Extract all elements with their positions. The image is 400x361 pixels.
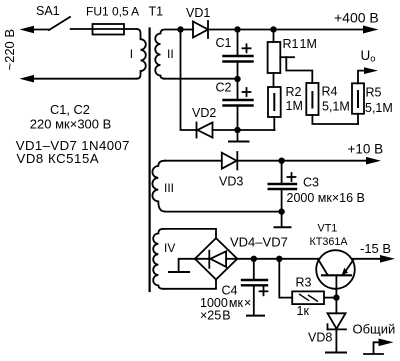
ground: chassis at bridge left bbox=[169, 259, 195, 272]
capacitor C1 bbox=[224, 30, 253, 80]
diode VD1 bbox=[193, 21, 238, 38]
resistor R1 bbox=[268, 30, 281, 88]
arrow: -15 V output bbox=[380, 255, 395, 263]
svg-text:КТ361А: КТ361А bbox=[310, 236, 349, 248]
svg-text:SA1: SA1 bbox=[36, 4, 60, 18]
svg-text:VD8 КС515А: VD8 КС515А bbox=[17, 151, 100, 166]
svg-text:220 мк×300 В: 220 мк×300 В bbox=[30, 117, 112, 132]
wire: bottom 220V line bbox=[31, 78, 137, 80]
svg-text:R5: R5 bbox=[366, 86, 382, 100]
bridge rectifier VD4-VD7 bbox=[195, 238, 237, 279]
svg-text:+10 В: +10 В bbox=[348, 142, 384, 157]
svg-text:2000 мк×16 В: 2000 мк×16 В bbox=[287, 191, 365, 205]
svg-text:C2: C2 bbox=[216, 81, 232, 95]
wire: switch to fuse bbox=[71, 28, 93, 30]
svg-text:×25 В: ×25 В bbox=[200, 309, 231, 323]
transformer T1 winding II bbox=[155, 30, 180, 79]
zener diode VD8 bbox=[328, 298, 347, 352]
svg-text:R1: R1 bbox=[283, 37, 299, 51]
svg-text:Uо: Uо bbox=[361, 48, 376, 65]
svg-text:VD4–VD7: VD4–VD7 bbox=[230, 235, 288, 250]
transformer T1 winding I bbox=[137, 29, 146, 79]
node: +400 rail at C1 bbox=[234, 26, 240, 32]
capacitor C4 bbox=[242, 259, 268, 315]
node: base-R3-VD8 junction bbox=[333, 294, 339, 300]
ground: chassis below C4 bbox=[247, 315, 264, 317]
svg-text:FU1 0,5 A: FU1 0,5 A bbox=[86, 5, 139, 19]
diode VD2 bbox=[197, 123, 275, 138]
arrow: +400 V output bbox=[363, 26, 379, 34]
svg-text:5,1М: 5,1М bbox=[365, 101, 393, 115]
node: rail at R3 bbox=[276, 256, 282, 262]
diode VD3 bbox=[222, 152, 367, 170]
arrow: +10 V output bbox=[366, 157, 381, 165]
wire: +400 rail bbox=[238, 29, 366, 31]
node: winding II top junction bbox=[177, 26, 183, 32]
wire: top node to VD1 bbox=[181, 29, 194, 31]
svg-text:1М: 1М bbox=[300, 37, 317, 51]
ground: chassis below C3 bbox=[275, 226, 291, 228]
svg-text:5,1М: 5,1М bbox=[322, 100, 350, 114]
svg-text:T1: T1 bbox=[149, 5, 164, 19]
svg-text:R2: R2 bbox=[286, 85, 302, 99]
wire: top node down to VD2 bbox=[181, 30, 197, 131]
resistor R3 bbox=[292, 291, 336, 304]
ground: chassis below VD8 bbox=[326, 352, 346, 354]
svg-text:VD3: VD3 bbox=[219, 175, 243, 189]
svg-text:VT1: VT1 bbox=[318, 223, 338, 235]
svg-text:III: III bbox=[164, 181, 174, 195]
svg-text:C1, C2: C1, C2 bbox=[50, 102, 90, 117]
transformer T1 winding IV bbox=[153, 229, 163, 289]
node: +400 rail at R1 bbox=[270, 26, 276, 32]
svg-text:R3: R3 bbox=[296, 276, 312, 290]
wire: top 220V input line bbox=[31, 29, 49, 31]
svg-text:1к: 1к bbox=[297, 304, 310, 318]
wire: winding II bottom to C1-C2 node bbox=[165, 78, 238, 80]
svg-text:+400 В: +400 В bbox=[334, 10, 379, 26]
svg-text:VD8: VD8 bbox=[308, 331, 332, 345]
svg-text:I: I bbox=[130, 47, 133, 61]
node: rail at C4 bbox=[251, 256, 257, 262]
wire: winding IV top to bridge bbox=[163, 229, 216, 238]
wire: winding III top to VD3 bbox=[165, 160, 222, 162]
switch SA1 bbox=[49, 17, 70, 30]
node: winding III bottom junction bbox=[278, 208, 284, 214]
svg-text:Общий: Общий bbox=[353, 322, 396, 337]
node: VD2 cathode row junction bbox=[234, 127, 240, 133]
arrow: top input (left) bbox=[20, 26, 35, 34]
svg-text:-15 В: -15 В bbox=[360, 241, 391, 256]
node: +10 rail at C3 bbox=[278, 158, 284, 164]
svg-text:C3: C3 bbox=[303, 176, 319, 190]
wire: R1 tap to R4 bbox=[280, 57, 312, 83]
fuse FU1 bbox=[93, 24, 125, 35]
arrow: Uo output bbox=[364, 67, 378, 74]
wire: winding III bottom row bbox=[165, 211, 282, 213]
svg-text:R4: R4 bbox=[322, 85, 338, 99]
arrow: bottom input (left) bbox=[20, 75, 35, 83]
capacitor C3 bbox=[269, 161, 296, 227]
transformer T1 winding III bbox=[152, 161, 165, 212]
wire: fuse to winding I bbox=[124, 28, 137, 30]
svg-text:II: II bbox=[167, 47, 174, 61]
resistor R4 bbox=[306, 83, 358, 124]
terminal: common output bbox=[364, 339, 394, 355]
node: C1-C2 junction bbox=[234, 76, 240, 82]
wire: negative rail to transistor bbox=[237, 258, 319, 260]
wire: winding IV bottom to bridge bbox=[163, 280, 216, 289]
ground: chassis below C2 node bbox=[229, 141, 249, 143]
wire: emitter to -15V bbox=[352, 258, 381, 260]
transistor VT1 bbox=[316, 250, 355, 297]
svg-text:VD2: VD2 bbox=[192, 106, 216, 120]
svg-text:~220 В: ~220 В bbox=[2, 29, 17, 71]
svg-text:1М: 1М bbox=[286, 99, 303, 113]
resistor R5 bbox=[352, 71, 365, 124]
capacitor C2 bbox=[224, 79, 253, 141]
transformer core bbox=[149, 29, 151, 292]
resistor R2 bbox=[268, 87, 281, 130]
wire: rail to R3 bbox=[279, 259, 292, 298]
svg-text:IV: IV bbox=[164, 241, 175, 255]
svg-text:C1: C1 bbox=[216, 36, 232, 50]
svg-text:VD1: VD1 bbox=[186, 6, 210, 20]
